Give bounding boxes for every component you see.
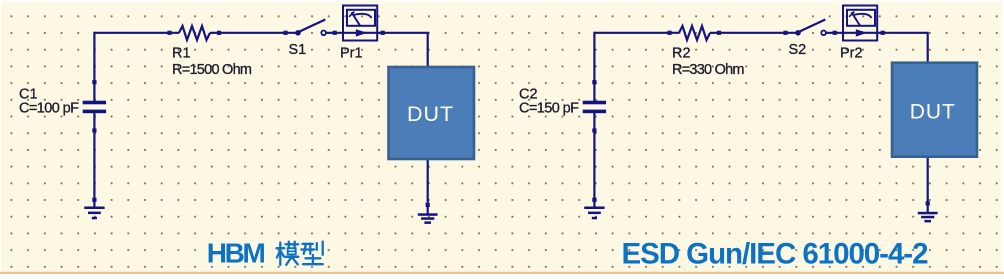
wire: capacitor C1 to ground [93,110,95,207]
junction on wire left of R2 [667,31,671,35]
caption: Chinese character 模 [277,242,299,265]
probe meter Pr1 needle tick [349,12,354,17]
junction above ground of C1 [92,198,96,202]
capacitor C1 plates [83,101,106,105]
switch S1 pole contact [295,30,301,36]
svg-text:R=330 Ohm: R=330 Ohm [672,62,745,78]
wire: probe Pr2 to corner above DUT [877,33,928,65]
probe meter Pr2 needle [852,12,861,25]
switch S2 pole contact [795,30,801,36]
junction above DUT ground [426,203,430,207]
switch S1 blade [298,20,325,33]
svg-text:Pr2: Pr2 [840,46,863,62]
junction above ground of C2 [592,198,596,202]
DUT block [892,63,977,157]
junction at C1 bottom pin [92,128,96,132]
junction left of switch S1 [283,31,287,35]
wire: switch S1 throw to probe Pr1 [326,32,343,34]
probe meter Pr2 needle tick [849,12,854,17]
DUT block [389,67,475,159]
wire: R1 to switch S1 pole [210,32,298,34]
svg-text:C=100 pF: C=100 pF [19,101,79,117]
resistor R1 [179,26,210,40]
svg-text:HBM: HBM [207,238,266,269]
probe meter Pr1 inner meter face [347,10,375,26]
switch S1 throw contact (open circle) [321,31,326,36]
wire: DUT bottom to ground [427,159,429,214]
capacitor C2 plates [583,101,606,105]
svg-text:DUT: DUT [910,100,956,123]
junction above DUT ground [926,201,930,205]
ground below DUT [418,213,438,224]
wire: through probe Pr2 [843,32,877,34]
ground below DUT [918,212,938,223]
svg-text:S1: S1 [289,42,307,58]
probe meter Pr2 inner meter face [847,10,875,26]
svg-text:Pr1: Pr1 [340,46,363,62]
switch S2 blade [798,20,825,33]
ground below capacitor C1 [84,207,104,220]
svg-text:R1: R1 [172,46,191,62]
probe meter Pr1 needle [352,12,361,25]
junction at C2 top pin [592,80,596,84]
resistor R2 [679,26,710,40]
svg-text:ESD Gun/IEC 61000-4-2: ESD Gun/IEC 61000-4-2 [622,238,929,271]
wire: switch S2 throw to probe Pr2 [826,32,843,34]
wire: left vertical down to capacitor C1 [93,32,95,102]
wire: probe Pr1 to corner above DUT [377,33,428,69]
wire: top horizontal from C2 to R2 [594,32,679,34]
svg-text:S2: S2 [789,42,807,58]
junction left of switch S2 [783,31,787,35]
wire: DUT bottom to ground [927,157,929,214]
svg-text:R=1500 Ohm: R=1500 Ohm [172,62,252,78]
wire: through probe Pr1 [343,32,377,34]
probe meter Pr1 scale arc [354,14,372,18]
caption: Chinese character 型 [301,242,323,265]
svg-text:C=150 pF: C=150 pF [519,101,579,117]
wire: top horizontal from C1 to R1 [94,32,179,34]
junction left of probe Pr2 [833,31,837,35]
svg-text:R2: R2 [672,46,691,62]
probe meter Pr1 arrow [356,29,368,36]
junction on wire left of R1 [167,31,171,35]
junction left of probe Pr1 [333,31,337,35]
probe meter Pr2 scale arc [854,14,872,18]
junction at C2 bottom pin [592,128,596,132]
ground below capacitor C2 [584,207,604,220]
junction at C1 top pin [92,80,96,84]
probe meter Pr2 outer box [843,6,877,41]
junction right of probe Pr1 [381,31,385,35]
junction on wire right of R1 [217,31,221,35]
svg-text:DUT: DUT [407,102,454,126]
junction right of probe Pr2 [881,31,885,35]
wire: left vertical down to capacitor C2 [593,32,595,102]
wire: R2 to switch S2 pole [710,32,798,34]
wire: capacitor C2 to ground [593,110,595,207]
switch S2 throw contact (open circle) [821,31,826,36]
probe meter Pr2 arrow [856,29,868,36]
junction on wire right of R2 [717,31,721,35]
probe meter Pr1 outer box [343,6,377,41]
